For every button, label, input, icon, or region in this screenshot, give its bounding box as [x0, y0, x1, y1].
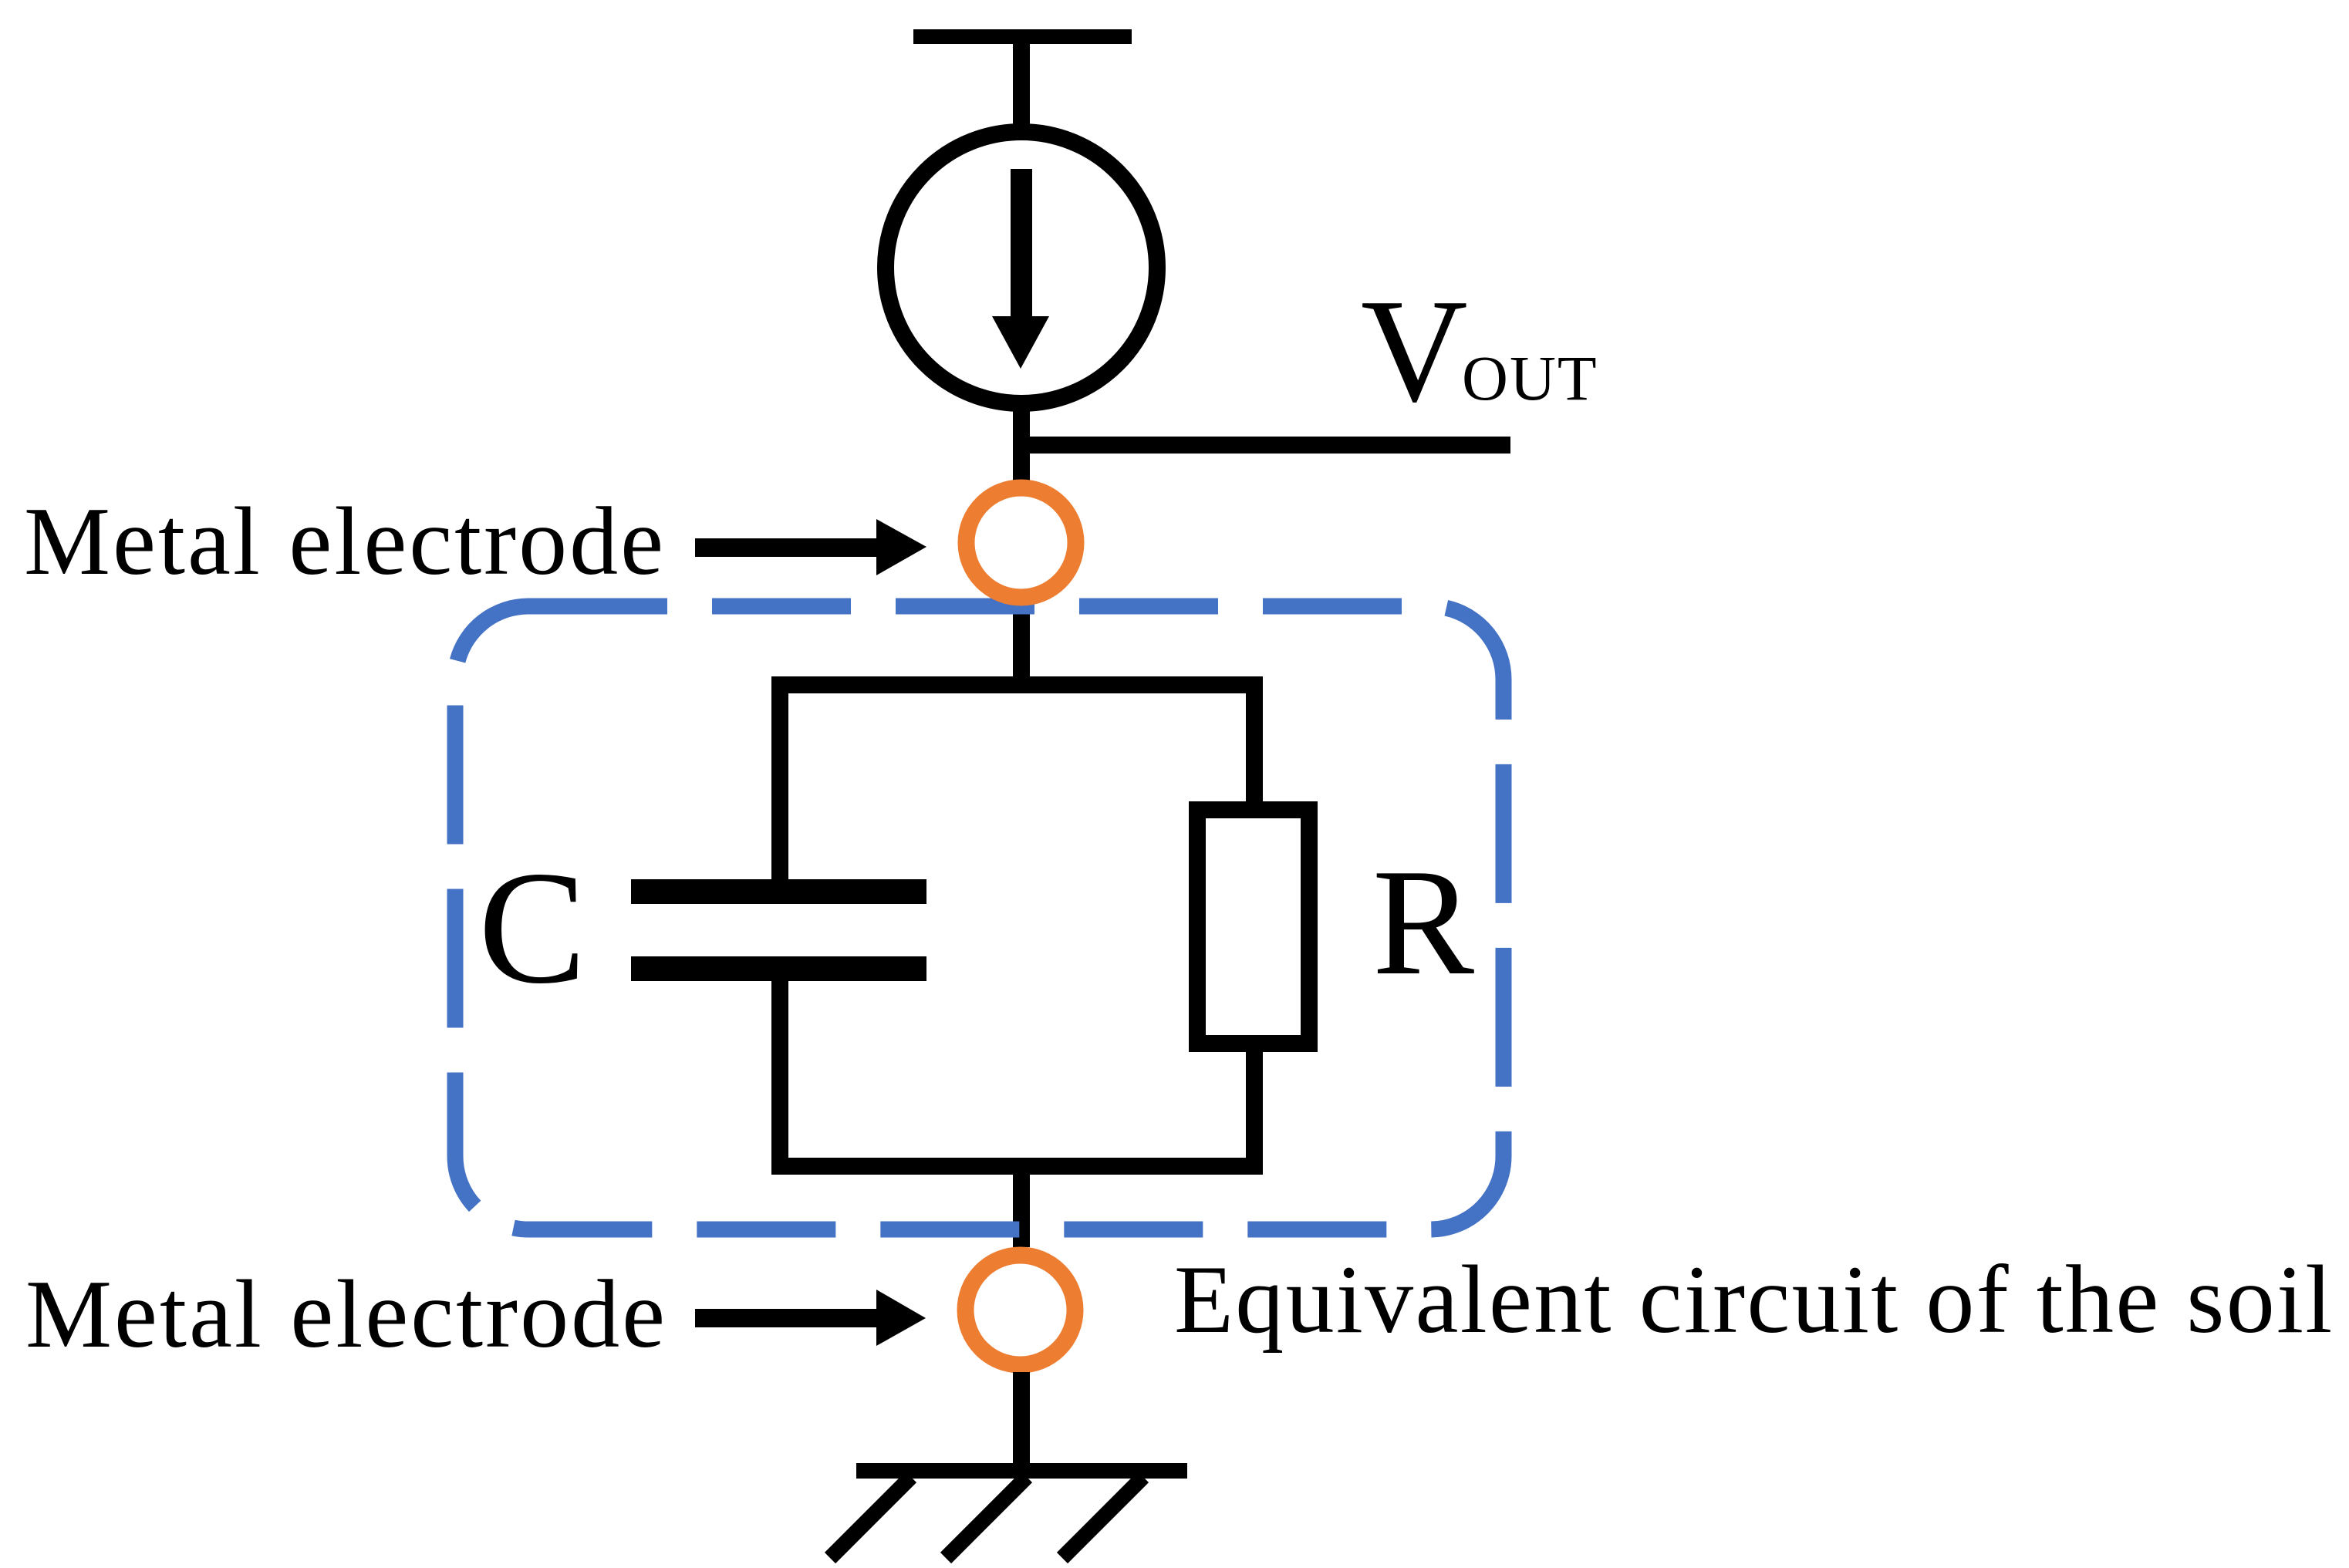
svg-text:OUT: OUT [1462, 342, 1598, 413]
svg-text:R: R [1372, 838, 1474, 1007]
svg-text:Metal electrode: Metal electrode [25, 1261, 667, 1368]
svg-text:Equivalent circuit of the soil: Equivalent circuit of the soil [1174, 1246, 2334, 1354]
svg-text:C: C [478, 838, 586, 1017]
svg-text:V: V [1361, 268, 1468, 433]
svg-text:Metal electrode: Metal electrode [24, 488, 666, 595]
